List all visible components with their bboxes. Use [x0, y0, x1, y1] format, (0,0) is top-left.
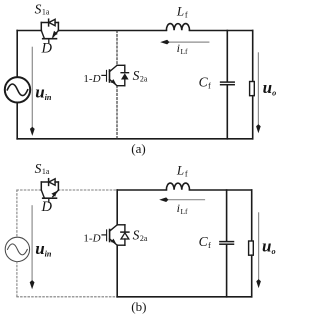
IGBT S2a body bar (a) — [109, 70, 111, 82]
IGBT S2a gate lead (a) — [102, 74, 106, 76]
switch S2a bottom wire (a) — [117, 85, 125, 87]
load resistor (b) — [249, 241, 254, 255]
node dashed branch lower (a) — [116, 86, 118, 139]
IGBT S2a collector slant (a) — [110, 65, 118, 71]
voltage arrow uo (b) — [256, 213, 261, 288]
wire left vertical lower (a) — [16, 103, 18, 139]
switch S1a diode branch wire (b) — [41, 181, 58, 183]
IGBT S1a emitter slant (b) — [53, 190, 59, 197]
capacitor Cf upper plate (a) — [221, 81, 235, 83]
wire left vertical lower dashed (b) — [16, 262, 18, 297]
current arrow iLf (a) — [160, 40, 209, 45]
wire top-middle dashed segment (b) — [58, 189, 117, 191]
wire right vertical lower (a) — [252, 96, 254, 139]
diode of S1a cathode bar (a) — [48, 19, 50, 26]
diode of S2a lower lead (b) — [124, 239, 126, 245]
wire top-right segment (b) — [190, 189, 252, 191]
wire top-left segment (a) — [17, 30, 41, 32]
svg-text:D: D — [41, 40, 53, 56]
AC source circle uin (b) — [5, 237, 29, 261]
IGBT S2a body bar (b) — [109, 230, 111, 242]
wire top-right segment (a) — [190, 30, 253, 32]
IGBT S2a emitter arrow (a) — [111, 79, 116, 84]
AC source sine wave (b) — [8, 244, 28, 255]
diode of S2a triangle (a) — [121, 73, 129, 79]
IGBT S2a collector slant (b) — [110, 225, 118, 231]
switch S2a branch upper solid (b) — [116, 190, 118, 225]
IGBT S1a collector slant (b) — [41, 190, 44, 198]
IGBT S1a emitter arrow (b) — [51, 191, 57, 197]
capacitor Cf lower lead (b) — [226, 245, 228, 297]
svg-text:1-D: 1-D — [83, 233, 100, 245]
switch S1a left post (b) — [40, 182, 42, 190]
diode of S2a cathode bar (a) — [121, 72, 128, 74]
diode of S2a lower lead (a) — [124, 80, 126, 86]
diode of S2a upper lead (a) — [124, 65, 126, 72]
node dashed branch upper (a) — [116, 31, 118, 66]
AC source sine wave (a) — [7, 84, 27, 96]
svg-text:S: S — [35, 1, 42, 16]
load resistor (a) — [250, 82, 255, 96]
inductor Lf (a) — [166, 24, 189, 31]
switch S1a left post (a) — [40, 23, 42, 31]
wire left vertical upper (a) — [16, 31, 18, 78]
svg-text:1a: 1a — [42, 167, 50, 176]
IGBT S1a body bar (a) — [43, 38, 57, 40]
diode of S1a triangle (a) — [49, 19, 55, 25]
wire right vertical upper (b) — [251, 190, 253, 241]
diode of S2a cathode bar (b) — [121, 231, 129, 233]
svg-text:(a): (a) — [131, 141, 145, 156]
voltage arrow uin (a) — [30, 47, 35, 136]
wire left vertical upper dashed (b) — [16, 190, 18, 237]
capacitor Cf lower plate (b) — [220, 243, 234, 245]
svg-text:(b): (b) — [131, 299, 146, 314]
capacitor Cf upper plate (b) — [220, 241, 234, 243]
svg-text:1-D: 1-D — [83, 73, 100, 85]
switch S1a right post (a) — [57, 23, 59, 31]
inductor Lf (b) — [166, 183, 189, 190]
diode of S1a triangle (b) — [49, 179, 55, 185]
capacitor Cf upper lead (a) — [226, 31, 228, 82]
wire bottom solid segment (b) — [117, 296, 252, 298]
IGBT S1a emitter arrow (a) — [52, 31, 58, 37]
svg-text:S: S — [35, 161, 42, 176]
IGBT S2a emitter arrow (b) — [111, 239, 116, 244]
IGBT S1a gate stub (b) — [48, 198, 50, 202]
capacitor Cf lower lead (a) — [226, 85, 228, 138]
IGBT S2a emitter slant (b) — [110, 239, 118, 245]
IGBT S1a emitter slant (a) — [53, 31, 59, 38]
svg-text:2a: 2a — [140, 234, 148, 243]
wire top-middle segment (a) — [58, 30, 166, 32]
IGBT S2a gate lead (b) — [102, 234, 106, 236]
IGBT S1a collector slant (a) — [41, 31, 44, 39]
voltage arrow uin (b) — [30, 206, 35, 289]
switch S2a bottom wire (b) — [117, 244, 125, 246]
wire bottom (a) — [17, 138, 253, 140]
diode of S1a cathode bar (b) — [48, 179, 50, 186]
svg-text:S: S — [133, 68, 140, 83]
switch S2a top wire (a) — [117, 64, 125, 66]
switch S1a right post (b) — [57, 182, 59, 190]
svg-text:2a: 2a — [140, 75, 148, 84]
svg-text:1a: 1a — [42, 8, 50, 17]
IGBT S2a gate bar (a) — [106, 70, 108, 81]
current arrow iLf (b) — [159, 197, 204, 202]
IGBT S1a gate stub (a) — [48, 39, 50, 43]
diode of S2a upper lead (b) — [124, 225, 126, 232]
capacitor Cf upper lead (b) — [226, 190, 228, 241]
wire top solid segment (b) — [117, 189, 166, 191]
wire bottom dashed segment (b) — [17, 296, 117, 298]
switch S2a top wire (b) — [117, 224, 125, 226]
capacitor Cf lower plate (a) — [221, 84, 235, 86]
wire right vertical upper (a) — [252, 31, 254, 82]
wire right vertical lower (b) — [251, 255, 253, 297]
voltage arrow uo (a) — [256, 53, 261, 133]
IGBT S2a gate bar (b) — [106, 230, 108, 241]
wire top-left dashed segment (b) — [17, 189, 41, 191]
switch S2a branch lower solid (b) — [116, 245, 118, 297]
svg-text:D: D — [41, 199, 53, 215]
IGBT S1a body bar (b) — [43, 197, 57, 199]
switch S1a diode branch wire (a) — [41, 22, 58, 24]
diode of S2a triangle (b) — [121, 233, 129, 239]
IGBT S2a emitter slant (a) — [110, 79, 118, 85]
AC source circle uin (a) — [5, 77, 30, 102]
svg-text:S: S — [133, 228, 140, 243]
